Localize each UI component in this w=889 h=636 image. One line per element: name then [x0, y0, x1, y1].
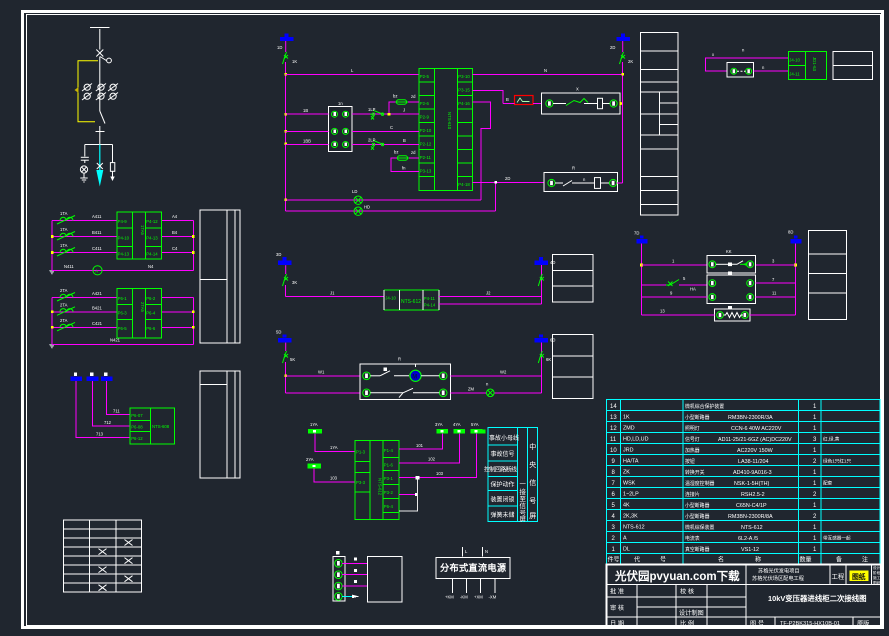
svg-text:J4-11: J4-11: [789, 72, 800, 77]
panel list table upper: [200, 210, 240, 343]
svg-text:R: R: [398, 357, 401, 362]
svg-text:11: 11: [610, 437, 617, 443]
svg-text:1YA: 1YA: [310, 422, 318, 427]
wire JRD right: [439, 291, 542, 305]
svg-text:数量: 数量: [800, 556, 812, 564]
svg-text:M: M: [412, 375, 417, 381]
svg-text:P2-11: P2-11: [420, 155, 432, 160]
wire P4-16 drop to lamp LD: [473, 102, 491, 200]
wire N loop 2: [52, 338, 193, 345]
CT 1TAa: [57, 211, 75, 224]
relay box TQ: [707, 272, 755, 304]
wire from bar3: [107, 381, 131, 414]
svg-text:B: B: [403, 138, 406, 143]
svg-text:P2-12: P2-12: [420, 142, 432, 147]
svg-text:C4: C4: [172, 246, 178, 251]
svg-text:HD: HD: [364, 205, 370, 210]
svg-text:P3-13: P3-13: [420, 169, 432, 174]
svg-text:P1-4: P1-4: [384, 448, 394, 453]
svg-text:HD,LD,UD: HD,LD,UD: [623, 437, 649, 443]
svg-text:ZM: ZM: [468, 387, 475, 392]
lamp HD: [354, 207, 362, 215]
svg-text:RSH2.5-2: RSH2.5-2: [741, 492, 765, 498]
CT test box: [328, 101, 352, 152]
node junctions: [284, 73, 287, 201]
svg-text:P3-10: P3-10: [458, 74, 470, 79]
svg-text:5K: 5K: [290, 357, 295, 362]
wire P1-6 to 4YA: [399, 434, 459, 464]
CT 2TAb: [57, 302, 75, 315]
svg-text:1LP: 1LP: [368, 107, 376, 112]
panel list table lower: [200, 371, 240, 478]
wire row2 right: [756, 277, 796, 283]
svg-text:加热器: 加热器: [685, 447, 700, 454]
svg-text:LA38-11/204: LA38-11/204: [738, 459, 768, 465]
heater block JRD: [384, 290, 439, 310]
breaker 1K left: [283, 41, 298, 64]
svg-text:713: 713: [96, 432, 104, 437]
svg-text:1TA: 1TA: [60, 243, 68, 248]
svg-text:J1: J1: [330, 291, 335, 296]
wire: [99, 57, 101, 112]
svg-text:事故小母线: 事故小母线: [489, 434, 519, 442]
svg-text:+XM: +XM: [474, 595, 483, 600]
svg-text:R: R: [572, 166, 575, 171]
svg-text:NTS-608: NTS-608: [152, 424, 170, 429]
aux heater circuit top-right: [706, 48, 789, 77]
breaker 4K right: [538, 274, 544, 286]
svg-text:1YA: 1YA: [330, 445, 338, 450]
svg-text:设计: 设计: [873, 565, 881, 570]
wire phase A: [52, 291, 193, 298]
svg-text:HA/TA: HA/TA: [623, 459, 639, 465]
svg-text:3K: 3K: [292, 280, 297, 285]
svg-text:2YA: 2YA: [306, 457, 314, 462]
svg-text:注: 注: [862, 556, 868, 564]
svg-text:红,绿,黄: 红,绿,黄: [823, 436, 840, 443]
terminal block P6-0x: [130, 408, 174, 444]
svg-text:事故信号: 事故信号: [491, 450, 515, 458]
wire row4: [642, 309, 796, 315]
svg-text:备: 备: [836, 556, 842, 564]
svg-text:10kV变压器进线柜二次接线图: 10kV变压器进线柜二次接线图: [768, 594, 867, 603]
wire phase C: [52, 321, 193, 327]
svg-text:B421: B421: [92, 306, 102, 311]
svg-text:中: 中: [529, 442, 536, 451]
svg-text:照明灯: 照明灯: [685, 425, 700, 432]
svg-text:P4-11: P4-11: [424, 296, 436, 301]
svg-text:名: 名: [718, 556, 724, 564]
svg-text:10: 10: [610, 448, 617, 454]
svg-text:P6-2: P6-2: [146, 296, 156, 301]
svg-text:P3-15: P3-15: [458, 88, 470, 93]
svg-text:审 核: 审 核: [610, 604, 624, 612]
svg-text:设计制图: 设计制图: [679, 609, 704, 617]
svg-text:苏格光伏发电项目: 苏格光伏发电项目: [758, 567, 800, 575]
disconnect switch: [96, 111, 106, 145]
signal destination table: [480, 427, 538, 523]
svg-text:2TA: 2TA: [60, 288, 68, 293]
svg-text:真空断路器: 真空断路器: [685, 546, 710, 553]
PT cyan arrow: [96, 145, 103, 187]
svg-text:2K: 2K: [628, 59, 633, 64]
breaker 6K right: [538, 351, 551, 363]
svg-text:P1-3: P1-3: [356, 450, 366, 455]
SLD: busbar: [75, 28, 119, 187]
wire left riser to rows: [284, 362, 360, 393]
svg-text:P3-1: P3-1: [384, 476, 394, 481]
svg-text:13: 13: [660, 309, 665, 314]
svg-text:P6-3: P6-3: [118, 310, 128, 315]
svg-text:信: 信: [529, 478, 536, 487]
notes table heater: [553, 255, 594, 302]
svg-text:C421: C421: [92, 321, 103, 326]
svg-text:装置闭锁: 装置闭锁: [491, 496, 515, 504]
breaker 3K: [283, 265, 298, 286]
svg-text:bz: bz: [394, 150, 398, 155]
svg-text:代: 代: [634, 556, 640, 564]
wire L: [286, 68, 419, 74]
wire 2YA to P3-3: [314, 468, 355, 482]
svg-text:P4-12: P4-12: [146, 219, 158, 224]
svg-text:2TA: 2TA: [60, 318, 68, 323]
CT 1TAc: [57, 243, 75, 256]
svg-text:图 号: 图 号: [750, 621, 764, 628]
svg-text:P2-9: P2-9: [420, 115, 430, 120]
svg-text:CCN-6 40W AC220V: CCN-6 40W AC220V: [731, 426, 782, 432]
ammeter A: [93, 266, 102, 275]
svg-text:C: C: [390, 125, 393, 130]
svg-text:P6-12: P6-12: [131, 436, 143, 441]
svg-text:2D: 2D: [505, 176, 510, 181]
capacitor branch: [80, 145, 88, 178]
svg-text:2K,3K: 2K,3K: [623, 514, 638, 520]
terminal 5D left: [276, 330, 292, 343]
spare box: [368, 556, 403, 602]
wire P4-18 row: [473, 176, 545, 184]
svg-text:绿色1只红1只: 绿色1只红1只: [823, 458, 851, 465]
svg-text:NTS-610: NTS-610: [447, 112, 452, 130]
terminal 4D right: [535, 257, 556, 265]
svg-text:1~2LP: 1~2LP: [623, 492, 639, 498]
wire phase B: [52, 306, 193, 312]
breaker 5K: [283, 343, 296, 363]
svg-text:zd: zd: [411, 94, 416, 99]
DC power supply box: [436, 547, 510, 600]
svg-text:P6-4: P6-4: [384, 504, 394, 509]
note box top right: [833, 51, 873, 79]
svg-text:1TA: 1TA: [60, 211, 68, 216]
lamp LD: [354, 196, 362, 204]
svg-text:J4-10: J4-10: [789, 58, 800, 63]
svg-text:N411: N411: [64, 264, 74, 269]
terminal 7D left: [634, 231, 648, 244]
wire lamp LD row: [286, 189, 481, 200]
wire box to block row P2-9 with contact 1LP: [352, 107, 419, 120]
svg-text:5D: 5D: [276, 330, 281, 335]
notes table thermostat: [553, 334, 594, 398]
wire WSK right: [450, 370, 541, 393]
wire P3-2 stub: [399, 493, 418, 496]
svg-text:1BB: 1BB: [303, 139, 311, 144]
wire box2 right: [617, 182, 623, 184]
svg-text:弹簧未储: 弹簧未储: [491, 511, 515, 519]
svg-text:JRD: JRD: [623, 448, 634, 454]
svg-text:A: A: [623, 536, 627, 542]
svg-text:配套: 配套: [823, 480, 833, 487]
svg-text:1B: 1B: [303, 108, 308, 113]
svg-text:DL: DL: [623, 547, 630, 553]
wire row P2-10: [352, 125, 419, 131]
svg-text:P3-2: P3-2: [384, 490, 394, 495]
svg-text:J: J: [403, 108, 405, 113]
ammeter A wire: [52, 264, 193, 270]
svg-text:屏: 屏: [520, 515, 527, 523]
svg-text:电流表: 电流表: [685, 535, 700, 542]
signal bus bars right: [435, 422, 482, 434]
svg-text:A411: A411: [92, 214, 102, 219]
svg-text:P4-9: P4-9: [118, 219, 128, 224]
svg-text:J4-10: J4-10: [385, 296, 396, 301]
arrester FV: [110, 145, 115, 182]
bus bar 1YA: [308, 422, 322, 434]
svg-text:P4-18: P4-18: [458, 182, 470, 187]
svg-text:P6-1: P6-1: [118, 296, 128, 301]
svg-text:4YA: 4YA: [453, 422, 461, 427]
wire 1YA to P1-3: [315, 434, 355, 452]
notes table right: [809, 230, 847, 319]
wire right riser: [541, 343, 543, 393]
svg-text:HA: HA: [690, 287, 696, 292]
svg-text:P3-3: P3-3: [356, 480, 366, 485]
svg-text:X: X: [576, 87, 579, 92]
svg-text:B: B: [506, 97, 509, 102]
svg-text:W1: W1: [318, 370, 325, 375]
svg-text:苏格光伏场区配电工程: 苏格光伏场区配电工程: [752, 574, 804, 582]
wire phase B: [52, 230, 193, 237]
wire right riser: [794, 244, 797, 316]
wire right riser 2: [192, 298, 195, 345]
wire row3: [642, 291, 796, 297]
svg-text:AD410-9A016-3: AD410-9A016-3: [733, 470, 772, 476]
svg-text:光伏园pvyuan.com下载: 光伏园pvyuan.com下载: [614, 569, 740, 583]
svg-text:号: 号: [529, 497, 536, 505]
terminal 1D left: [277, 34, 294, 51]
svg-text:AC220V 150W: AC220V 150W: [737, 448, 774, 454]
svg-text:2TA: 2TA: [60, 302, 68, 307]
wire left riser: [640, 244, 643, 316]
svg-text:号: 号: [660, 557, 666, 564]
svg-text:1TA5: 1TA5: [140, 225, 145, 236]
terminal bars blue: [70, 373, 112, 381]
svg-text:1n: 1n: [338, 101, 343, 106]
svg-text:NTS-612: NTS-612: [401, 299, 421, 305]
KK switch box: [707, 249, 755, 273]
terminal 3D left: [276, 252, 292, 265]
svg-text:日 期: 日 期: [610, 620, 624, 628]
svg-text:12: 12: [610, 426, 617, 432]
svg-text:小型断路器: 小型断路器: [685, 502, 710, 509]
wire row P2-12 with contact 2LP: [352, 138, 419, 150]
svg-text:103: 103: [436, 471, 444, 476]
svg-text:-KM: -KM: [460, 595, 468, 600]
svg-text:N421: N421: [110, 338, 121, 343]
svg-text:WSK: WSK: [623, 481, 636, 487]
thermostat box WSK: [360, 357, 450, 400]
svg-text:接: 接: [520, 487, 527, 496]
breaker right: [620, 41, 634, 64]
svg-text:件号: 件号: [608, 556, 620, 564]
terminal block P6: [117, 289, 162, 338]
relay block JD-63: [788, 51, 826, 79]
svg-text:P6-5: P6-5: [118, 326, 128, 331]
terminal block NTS-610: [419, 69, 473, 191]
wire P1-4 to 3YA: [399, 434, 442, 450]
svg-text:1D: 1D: [277, 45, 282, 50]
svg-text:按钮: 按钮: [685, 458, 695, 465]
svg-text:A4: A4: [172, 214, 178, 219]
svg-text:P4-14: P4-14: [424, 303, 436, 308]
svg-text:13: 13: [610, 415, 617, 421]
svg-text:P1-6: P1-6: [384, 463, 394, 468]
contact HA: [642, 276, 708, 292]
svg-text:连接片: 连接片: [685, 491, 700, 498]
svg-text:至: 至: [520, 495, 527, 503]
BOM header row: [608, 556, 869, 564]
wire from bar2: [93, 381, 131, 426]
svg-text:A421: A421: [92, 291, 102, 296]
svg-text:B4: B4: [172, 230, 178, 235]
svg-text:P4-10: P4-10: [118, 235, 130, 240]
svg-text:带互感器一起: 带互感器一起: [823, 535, 851, 542]
svg-text:批 准: 批 准: [610, 588, 624, 596]
svg-text:信号灯: 信号灯: [685, 436, 700, 443]
svg-text:6K: 6K: [546, 357, 551, 362]
wire: [99, 29, 101, 50]
svg-text:J2: J2: [486, 291, 491, 296]
svg-text:保护动作: 保护动作: [491, 481, 515, 489]
wire P3-15 loop: [473, 90, 504, 103]
svg-text:阶段: 阶段: [873, 570, 881, 575]
svg-text:+KM: +KM: [445, 595, 454, 600]
svg-text:1TA: 1TA: [60, 227, 68, 232]
svg-text:4K: 4K: [623, 503, 630, 509]
svg-text:ZK: ZK: [623, 470, 630, 476]
svg-text:3D: 3D: [276, 252, 281, 257]
svg-text:屏: 屏: [529, 512, 536, 520]
svg-text:712: 712: [104, 420, 112, 425]
svg-text:6L2-A /5: 6L2-A /5: [738, 536, 758, 542]
wire left riser: [49, 221, 55, 276]
svg-text:C411: C411: [92, 246, 102, 251]
svg-text:一: 一: [520, 481, 527, 488]
node arrow: [620, 101, 624, 106]
red mark relay contact: [503, 96, 541, 105]
spare-core grid table: [64, 520, 142, 592]
breaker DL: [96, 50, 111, 63]
lamp ZMD: [486, 382, 494, 397]
wire bus to box: [286, 108, 329, 145]
svg-text:微机综合保护装置: 微机综合保护装置: [685, 403, 724, 410]
terminal block P4: [117, 212, 162, 259]
svg-text:微机综保装置: 微机综保装置: [685, 524, 714, 531]
svg-text:P4-14: P4-14: [146, 251, 158, 256]
window ladder table: [641, 32, 678, 215]
svg-text:信: 信: [520, 501, 527, 510]
svg-text:工程: 工程: [832, 572, 845, 581]
svg-text:1K: 1K: [623, 415, 630, 421]
svg-text:图纸: 图纸: [852, 572, 866, 581]
svg-text:分布式直流电源: 分布式直流电源: [440, 562, 507, 573]
svg-text:3YA: 3YA: [435, 422, 443, 427]
bus bar 2YA: [306, 457, 321, 468]
svg-text:NTS-612: NTS-612: [378, 478, 383, 496]
wire row1: [642, 259, 796, 266]
svg-text:ZMD: ZMD: [623, 426, 635, 432]
svg-text:N: N: [544, 68, 547, 73]
svg-text:VS1-12: VS1-12: [741, 547, 759, 553]
svg-text:RM3BN-2300R/8A: RM3BN-2300R/8A: [728, 514, 773, 520]
fuse FU1 to P2-6: [388, 94, 419, 116]
CT 1TAb: [57, 227, 75, 240]
svg-text:1K: 1K: [292, 59, 297, 64]
svg-text:zd: zd: [411, 150, 416, 155]
svg-text:P2-6: P2-6: [420, 101, 430, 106]
svg-text:8D: 8D: [788, 230, 793, 235]
svg-text:A: A: [95, 269, 98, 274]
svg-text:AD11-25/21-6GZ (AC)DC220V: AD11-25/21-6GZ (AC)DC220V: [718, 437, 792, 443]
spare strip 4 terminals: [333, 551, 345, 601]
svg-text:103: 103: [330, 476, 338, 481]
ground: [80, 178, 87, 182]
svg-text:14: 14: [610, 404, 617, 410]
wire N right: [473, 68, 623, 74]
wire left riser 2: [49, 298, 55, 350]
svg-text:B411: B411: [92, 230, 102, 235]
svg-text:JD1-63: JD1-63: [812, 57, 817, 71]
svg-text:LD: LD: [352, 189, 357, 194]
svg-text:2LP: 2LP: [368, 138, 376, 143]
svg-text:102: 102: [428, 457, 436, 462]
svg-text:比 例: 比 例: [680, 620, 694, 628]
svg-text:图纸: 图纸: [873, 580, 881, 585]
svg-text:P2-10: P2-10: [420, 128, 432, 133]
lamp box 2: [544, 166, 617, 192]
CT 2TAa: [57, 288, 75, 301]
wire phase A: [52, 214, 193, 221]
svg-text:小型断路器: 小型断路器: [685, 513, 710, 520]
wire from bar1: [76, 381, 130, 437]
svg-text:校 核: 校 核: [680, 588, 694, 596]
svg-text:P2-5: P2-5: [420, 74, 430, 79]
svg-text:P4-13: P4-13: [146, 235, 158, 240]
terminal block NTS-612 signal: [355, 441, 399, 520]
node bus tee: [85, 144, 113, 146]
svg-text:2TA5: 2TA5: [140, 302, 145, 313]
resistor box R1: [715, 306, 750, 321]
CT 2TAc: [57, 318, 75, 331]
svg-text:7D: 7D: [634, 231, 639, 236]
svg-text:NSK-1-5H(TH): NSK-1-5H(TH): [734, 481, 770, 487]
svg-text:KK: KK: [726, 249, 732, 254]
wire right riser: [541, 265, 543, 304]
svg-text:101: 101: [416, 443, 424, 448]
svg-text:11: 11: [772, 291, 777, 296]
lamp box XD: [541, 87, 620, 115]
CT yellow box: [75, 61, 99, 122]
svg-text:-XM: -XM: [489, 595, 497, 600]
svg-text:原版: 原版: [857, 620, 869, 628]
